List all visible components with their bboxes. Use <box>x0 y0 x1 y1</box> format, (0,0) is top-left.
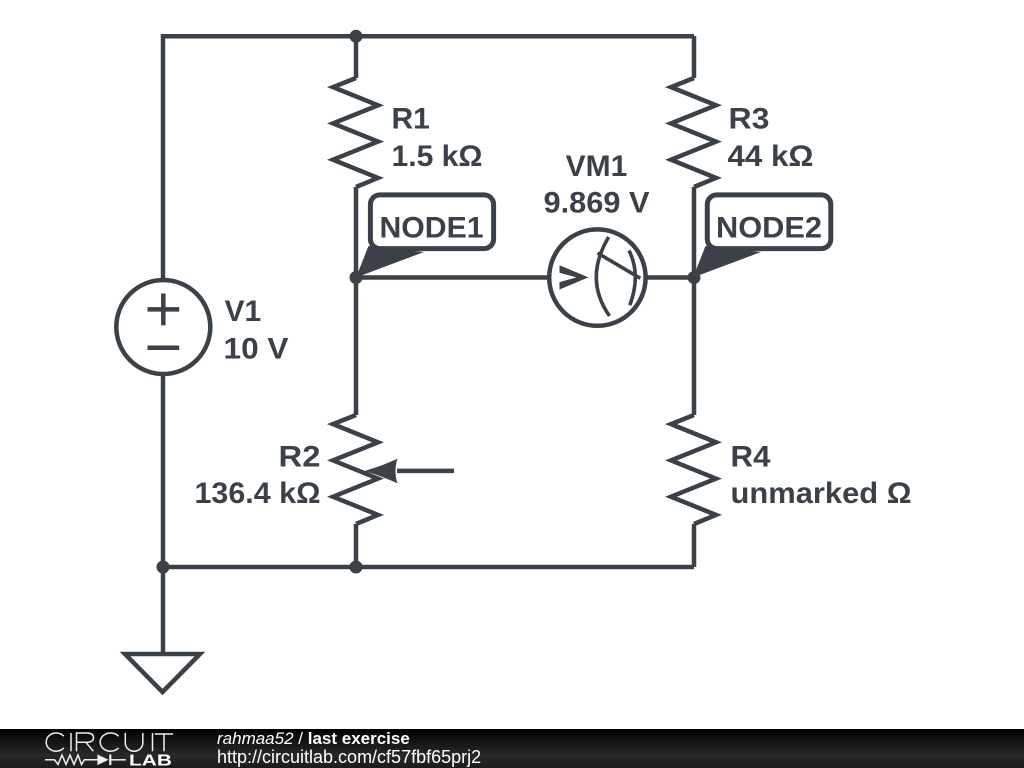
svg-text:NODE1: NODE1 <box>380 212 484 245</box>
logo letter T <box>155 734 173 751</box>
svg-text:R1: R1 <box>392 103 430 136</box>
wire top rail <box>163 34 694 39</box>
svg-text:1.5 kΩ: 1.5 kΩ <box>392 140 483 173</box>
voltmeter VM1 <box>549 229 645 325</box>
logo letter R <box>77 733 94 751</box>
ground <box>125 654 200 692</box>
logo resistor squiggle <box>45 755 97 765</box>
wire voltmeter VM1 to NODE2 <box>647 275 694 280</box>
resistor R3 <box>671 78 716 187</box>
potentiometer R2 wiper arrow <box>365 459 455 484</box>
svg-text:R4: R4 <box>731 441 771 474</box>
svg-text:NODE2: NODE2 <box>716 212 822 245</box>
junction dot node B (NODE2) <box>688 271 701 284</box>
logo letter C <box>46 733 64 751</box>
junction dot bottom left (ground) <box>157 561 170 574</box>
resistor R4 <box>671 415 716 524</box>
svg-text:R3: R3 <box>729 103 770 136</box>
svg-text:unmarked Ω: unmarked Ω <box>731 477 912 510</box>
svg-text:9.869 V: 9.869 V <box>544 187 650 220</box>
wire R2 bottom stub <box>354 524 359 567</box>
svg-text:VM1: VM1 <box>566 150 628 183</box>
wire R4 bottom stub <box>692 524 697 567</box>
resistor R2 (potentiometer) <box>333 415 378 524</box>
junction dot node A (NODE1) <box>350 271 363 284</box>
CircuitLab logo <box>0 729 200 768</box>
logo letter I <box>152 733 154 751</box>
logo diode <box>97 755 108 766</box>
wire left rail lower (V1 bottom lead) <box>161 374 166 567</box>
svg-text:V1: V1 <box>225 295 262 328</box>
resistor R1 <box>333 78 378 187</box>
logo letter C <box>100 733 118 751</box>
wire R3 top stub <box>692 36 697 78</box>
node NODE2 callout tail <box>693 246 761 278</box>
node NODE2 callout box <box>707 195 831 249</box>
wire NODE1 to voltmeter VM1 <box>356 275 548 280</box>
logo letter I <box>70 733 72 751</box>
wire R3 bottom stub to NODE2 <box>692 187 697 278</box>
wire R2 top stub <box>354 278 359 416</box>
wire left rail upper (V1 top lead) <box>161 34 166 281</box>
voltage source V1 <box>116 280 210 374</box>
node NODE1 callout box <box>370 195 493 249</box>
logo letter U <box>125 733 143 751</box>
node NODE1 callout tail <box>356 246 424 278</box>
junction dot bottom (R2/bottom rail) <box>350 561 363 574</box>
wire R4 top stub <box>692 278 697 416</box>
junction dot top (R1/top rail) <box>350 30 363 43</box>
footer bar <box>0 729 1024 768</box>
svg-text:136.4 kΩ: 136.4 kΩ <box>195 477 321 510</box>
wire R1 top stub <box>354 36 359 78</box>
svg-text:R2: R2 <box>279 441 321 474</box>
credit line 2 <box>217 748 481 766</box>
svg-text:10 V: 10 V <box>224 333 289 366</box>
credit line 1 <box>217 730 410 747</box>
wire bottom rail <box>163 565 694 570</box>
svg-text:44 kΩ: 44 kΩ <box>728 140 814 173</box>
svg-text:LAB: LAB <box>129 752 172 768</box>
wire R1 bottom stub to NODE1 <box>354 187 359 278</box>
wire ground stub <box>161 567 166 654</box>
